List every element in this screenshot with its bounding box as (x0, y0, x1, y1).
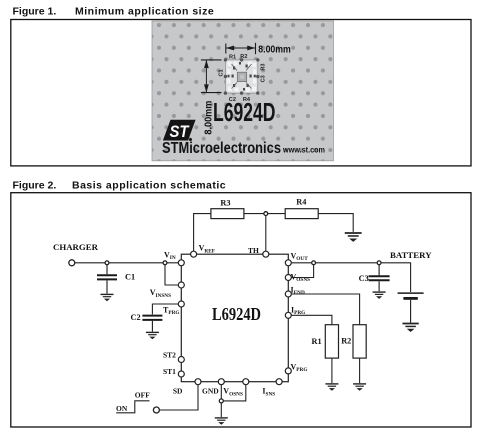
svg-text:ST2: ST2 (163, 350, 176, 359)
ground below C1 (101, 294, 114, 301)
svg-text:Figure 1.: Figure 1. (13, 6, 57, 18)
svg-text:C3: C3 (359, 274, 369, 283)
figure 2 frame (11, 193, 471, 427)
ground below R2 (353, 384, 366, 391)
pin ST2 (178, 357, 184, 363)
pin VINSNS (178, 282, 184, 288)
resistor R3 (211, 209, 244, 219)
svg-text:8.00mm: 8.00mm (258, 44, 291, 55)
svg-text:BATTERY: BATTERY (390, 250, 432, 260)
svg-text:SD: SD (173, 387, 183, 396)
resistor R2 (353, 325, 366, 358)
pin VOSNS (285, 275, 291, 281)
svg-text:VOSNS: VOSNS (223, 387, 243, 398)
svg-text:R1: R1 (312, 337, 322, 346)
svg-text:IPRG: IPRG (291, 306, 305, 317)
ground below C2 (146, 332, 159, 339)
wire VREF to R3 (194, 214, 211, 252)
svg-text:Basis application schematic: Basis application schematic (72, 179, 226, 191)
svg-text:VPRG: VPRG (291, 363, 308, 374)
svg-text:VREF: VREF (199, 244, 215, 255)
pin ST1 (178, 371, 184, 377)
junction C1 tap (105, 261, 109, 265)
svg-text:GND: GND (202, 387, 219, 396)
ground below R4 (345, 233, 362, 242)
wire charger to VIN pin (75, 262, 179, 264)
svg-text:ST1: ST1 (163, 367, 176, 376)
wire SD to switch (159, 385, 198, 410)
svg-text:TH: TH (248, 246, 259, 255)
svg-text:VINSNS: VINSNS (150, 288, 171, 299)
pin VOUT (285, 260, 291, 266)
ground below C3 (373, 292, 386, 299)
ground below battery (402, 324, 418, 333)
wire VOSNS bottom bracket (223, 385, 246, 401)
wire IEND to R2 (291, 294, 359, 325)
horizontal dimension 8.00mm (226, 43, 256, 54)
svg-text:ISNS: ISNS (262, 387, 275, 398)
svg-text:C3: C3 (261, 75, 267, 82)
pin VIN (178, 260, 184, 266)
svg-text:C1: C1 (125, 273, 135, 282)
svg-text:C2: C2 (131, 313, 141, 322)
wire R2 to ground (359, 358, 361, 383)
switch pole (153, 407, 159, 413)
svg-text:www.st.com: www.st.com (282, 146, 325, 155)
svg-text:R2: R2 (240, 54, 247, 60)
svg-text:L6924D: L6924D (212, 304, 261, 324)
svg-text:ON: ON (116, 404, 128, 413)
svg-text:IEND: IEND (291, 286, 305, 297)
svg-text:L6924D: L6924D (213, 97, 276, 127)
wire R3 to junction (244, 213, 264, 215)
svg-text:TPRG: TPRG (163, 305, 180, 316)
svg-text:C1: C1 (218, 69, 224, 76)
pin VREF (191, 251, 197, 257)
wire TPRG to C2 (152, 304, 178, 314)
ground below GND pin (215, 418, 228, 425)
vertical dimension 8.00mm (201, 60, 222, 93)
wire TH (265, 216, 267, 252)
pin IEND (285, 291, 291, 297)
wire junction to ground (220, 403, 222, 417)
junction GND/VOSNS (219, 399, 223, 403)
svg-text:STMicroelectronics: STMicroelectronics (162, 140, 281, 157)
battery symbol (398, 293, 424, 323)
junction R3/R4/TH (264, 212, 268, 216)
svg-text:VIN: VIN (164, 250, 176, 261)
svg-text:VOUT: VOUT (291, 251, 309, 262)
resistor R4 (285, 209, 318, 219)
pin GND (218, 379, 224, 385)
wire IPRG to R1 (291, 315, 332, 324)
svg-text:Figure 2.: Figure 2. (13, 179, 57, 191)
svg-text:Minimum application size: Minimum application size (75, 6, 214, 18)
wire VOUT rail to battery (291, 263, 410, 292)
capacitor C1 (97, 265, 117, 294)
pcb component cluster (224, 58, 260, 95)
svg-text:R2: R2 (341, 337, 351, 346)
svg-text:R3: R3 (261, 63, 267, 70)
svg-text:ST: ST (170, 122, 190, 141)
resistor R1 (325, 325, 338, 358)
figure 1 frame (11, 20, 471, 166)
wire R1 to ground (331, 358, 333, 383)
svg-text:R1: R1 (229, 55, 236, 61)
svg-text:R3: R3 (220, 198, 230, 207)
wire VINSNS bracket (165, 265, 178, 285)
wire VOSNS bracket (291, 265, 313, 278)
pin VOSNS bottom (243, 379, 249, 385)
capacitor C2 (142, 316, 162, 332)
svg-text:CHARGER: CHARGER (53, 242, 99, 252)
pin ISNS (276, 379, 282, 385)
junction C3 tap (377, 261, 381, 265)
wire GND down (220, 385, 222, 399)
pin TPRG (178, 301, 184, 307)
IC U1 L6924D body (181, 254, 288, 382)
svg-text:R4: R4 (296, 198, 306, 207)
pin SD (195, 379, 201, 385)
ground below R1 (325, 384, 338, 391)
ST logo (163, 120, 196, 141)
wire junction to R4 (268, 213, 286, 215)
svg-text:OFF: OFF (135, 391, 150, 400)
pin IPRG (285, 312, 291, 318)
pin VPRG (285, 368, 291, 374)
node CHARGER terminal (69, 260, 75, 266)
pcb photo background (152, 21, 334, 161)
capacitor C3 (369, 265, 390, 292)
wire R4 to ground (318, 214, 353, 232)
junction VINSNS tap (163, 261, 167, 265)
junction VOSNS tap (312, 261, 316, 265)
switch OFF/ON contacts (116, 401, 149, 413)
pin TH (263, 251, 269, 257)
